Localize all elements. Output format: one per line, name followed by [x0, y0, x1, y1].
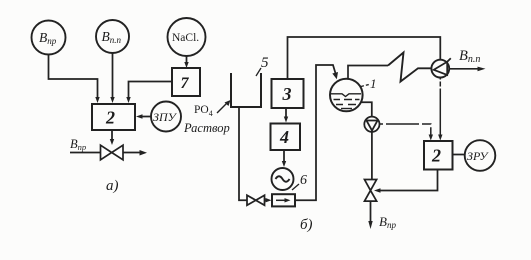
blowdown valve (vertical) [365, 180, 377, 202]
svg-text:6: 6 [300, 173, 307, 188]
wire block 7 to regulator 2 [129, 82, 173, 101]
wire from Вп.п circle to regulator 2 [112, 53, 114, 100]
svg-text:1: 1 [370, 76, 377, 91]
regulator block 2 (a) [92, 104, 135, 130]
steam line drum to superheater zigzag [348, 66, 388, 80]
wire from Впр circle to regulator 2 [49, 55, 98, 101]
svg-text:PO4: PO4 [194, 104, 213, 118]
steam out arrow Вп.п [449, 68, 478, 70]
motor 6 (circle with sine) [272, 168, 294, 190]
svg-text:5: 5 [261, 55, 269, 71]
block 7 [172, 68, 200, 96]
superheater zigzag [388, 53, 432, 82]
blowdown pipe drum to pump [361, 102, 372, 116]
svg-text:ЗРУ: ЗРУ [467, 149, 489, 163]
suction pipe from tank 5 [239, 107, 247, 200]
svg-text:Раствор: Раствор [183, 121, 230, 135]
wire NaCl circle to block 7 [186, 56, 188, 65]
leader arrow from PO4 label to tank 5 [217, 102, 228, 113]
pipe pump to blowdown valve [371, 132, 373, 180]
block 3 [272, 79, 304, 108]
svg-text:ЗПУ: ЗПУ [153, 110, 178, 124]
blowdown outlet arrow Впр [370, 201, 372, 222]
svg-text:7: 7 [181, 75, 190, 92]
wire block 3 to block 4 [285, 108, 287, 119]
svg-text:2: 2 [431, 146, 441, 166]
drum 1 (circle with water level) [330, 79, 363, 112]
pipe with flow arrow (a) [70, 152, 140, 154]
svg-text:Впр: Впр [39, 30, 57, 46]
discharge pipe pump to drum [295, 65, 336, 200]
setter circle ЗПУ [151, 102, 181, 132]
svg-text:NaCl.: NaCl. [172, 32, 199, 44]
svg-text:а): а) [106, 178, 119, 194]
dashed control line pump to regulator 2 (б) [380, 124, 431, 136]
flow element (circle with cone) [431, 60, 449, 78]
sensor circle Вп.п (a) [96, 20, 129, 53]
sensor circle Впр (a) [32, 21, 66, 55]
block 4 [271, 124, 301, 151]
control line regulator 2 to blowdown valve [380, 170, 438, 191]
valve before dosing pump [247, 195, 265, 205]
pump (circle with triangle) [364, 117, 379, 132]
wire ЗПУ to regulator 2 with arrow [142, 116, 151, 118]
impulse line top: flow element to block 3 [288, 37, 441, 79]
dosing pump body with flow arrow [272, 194, 295, 206]
wire block 4 to motor 6 [283, 150, 285, 162]
arrow valve to pump [265, 199, 267, 201]
svg-text:Впр: Впр [379, 214, 396, 230]
wire ЗРУ to regulator 2 [453, 154, 465, 156]
svg-text:2: 2 [105, 108, 115, 128]
tank 5 (open top) [231, 73, 261, 107]
svg-text:4: 4 [279, 127, 289, 147]
sensor circle NaCl [168, 18, 206, 56]
svg-text:Вп.п: Вп.п [459, 48, 480, 65]
svg-text:Вп.п: Вп.п [102, 29, 122, 45]
regulator block 2 (б) [424, 141, 453, 170]
setter circle ЗРУ [465, 140, 496, 171]
svg-text:3: 3 [282, 84, 292, 104]
svg-text:б): б) [300, 217, 313, 233]
wire regulator 2 to valve (a) [111, 129, 113, 142]
control valve (a) [101, 145, 124, 160]
svg-text:Впр: Впр [70, 137, 86, 152]
impulse line flow element to regulator 2 (б) [439, 78, 441, 137]
